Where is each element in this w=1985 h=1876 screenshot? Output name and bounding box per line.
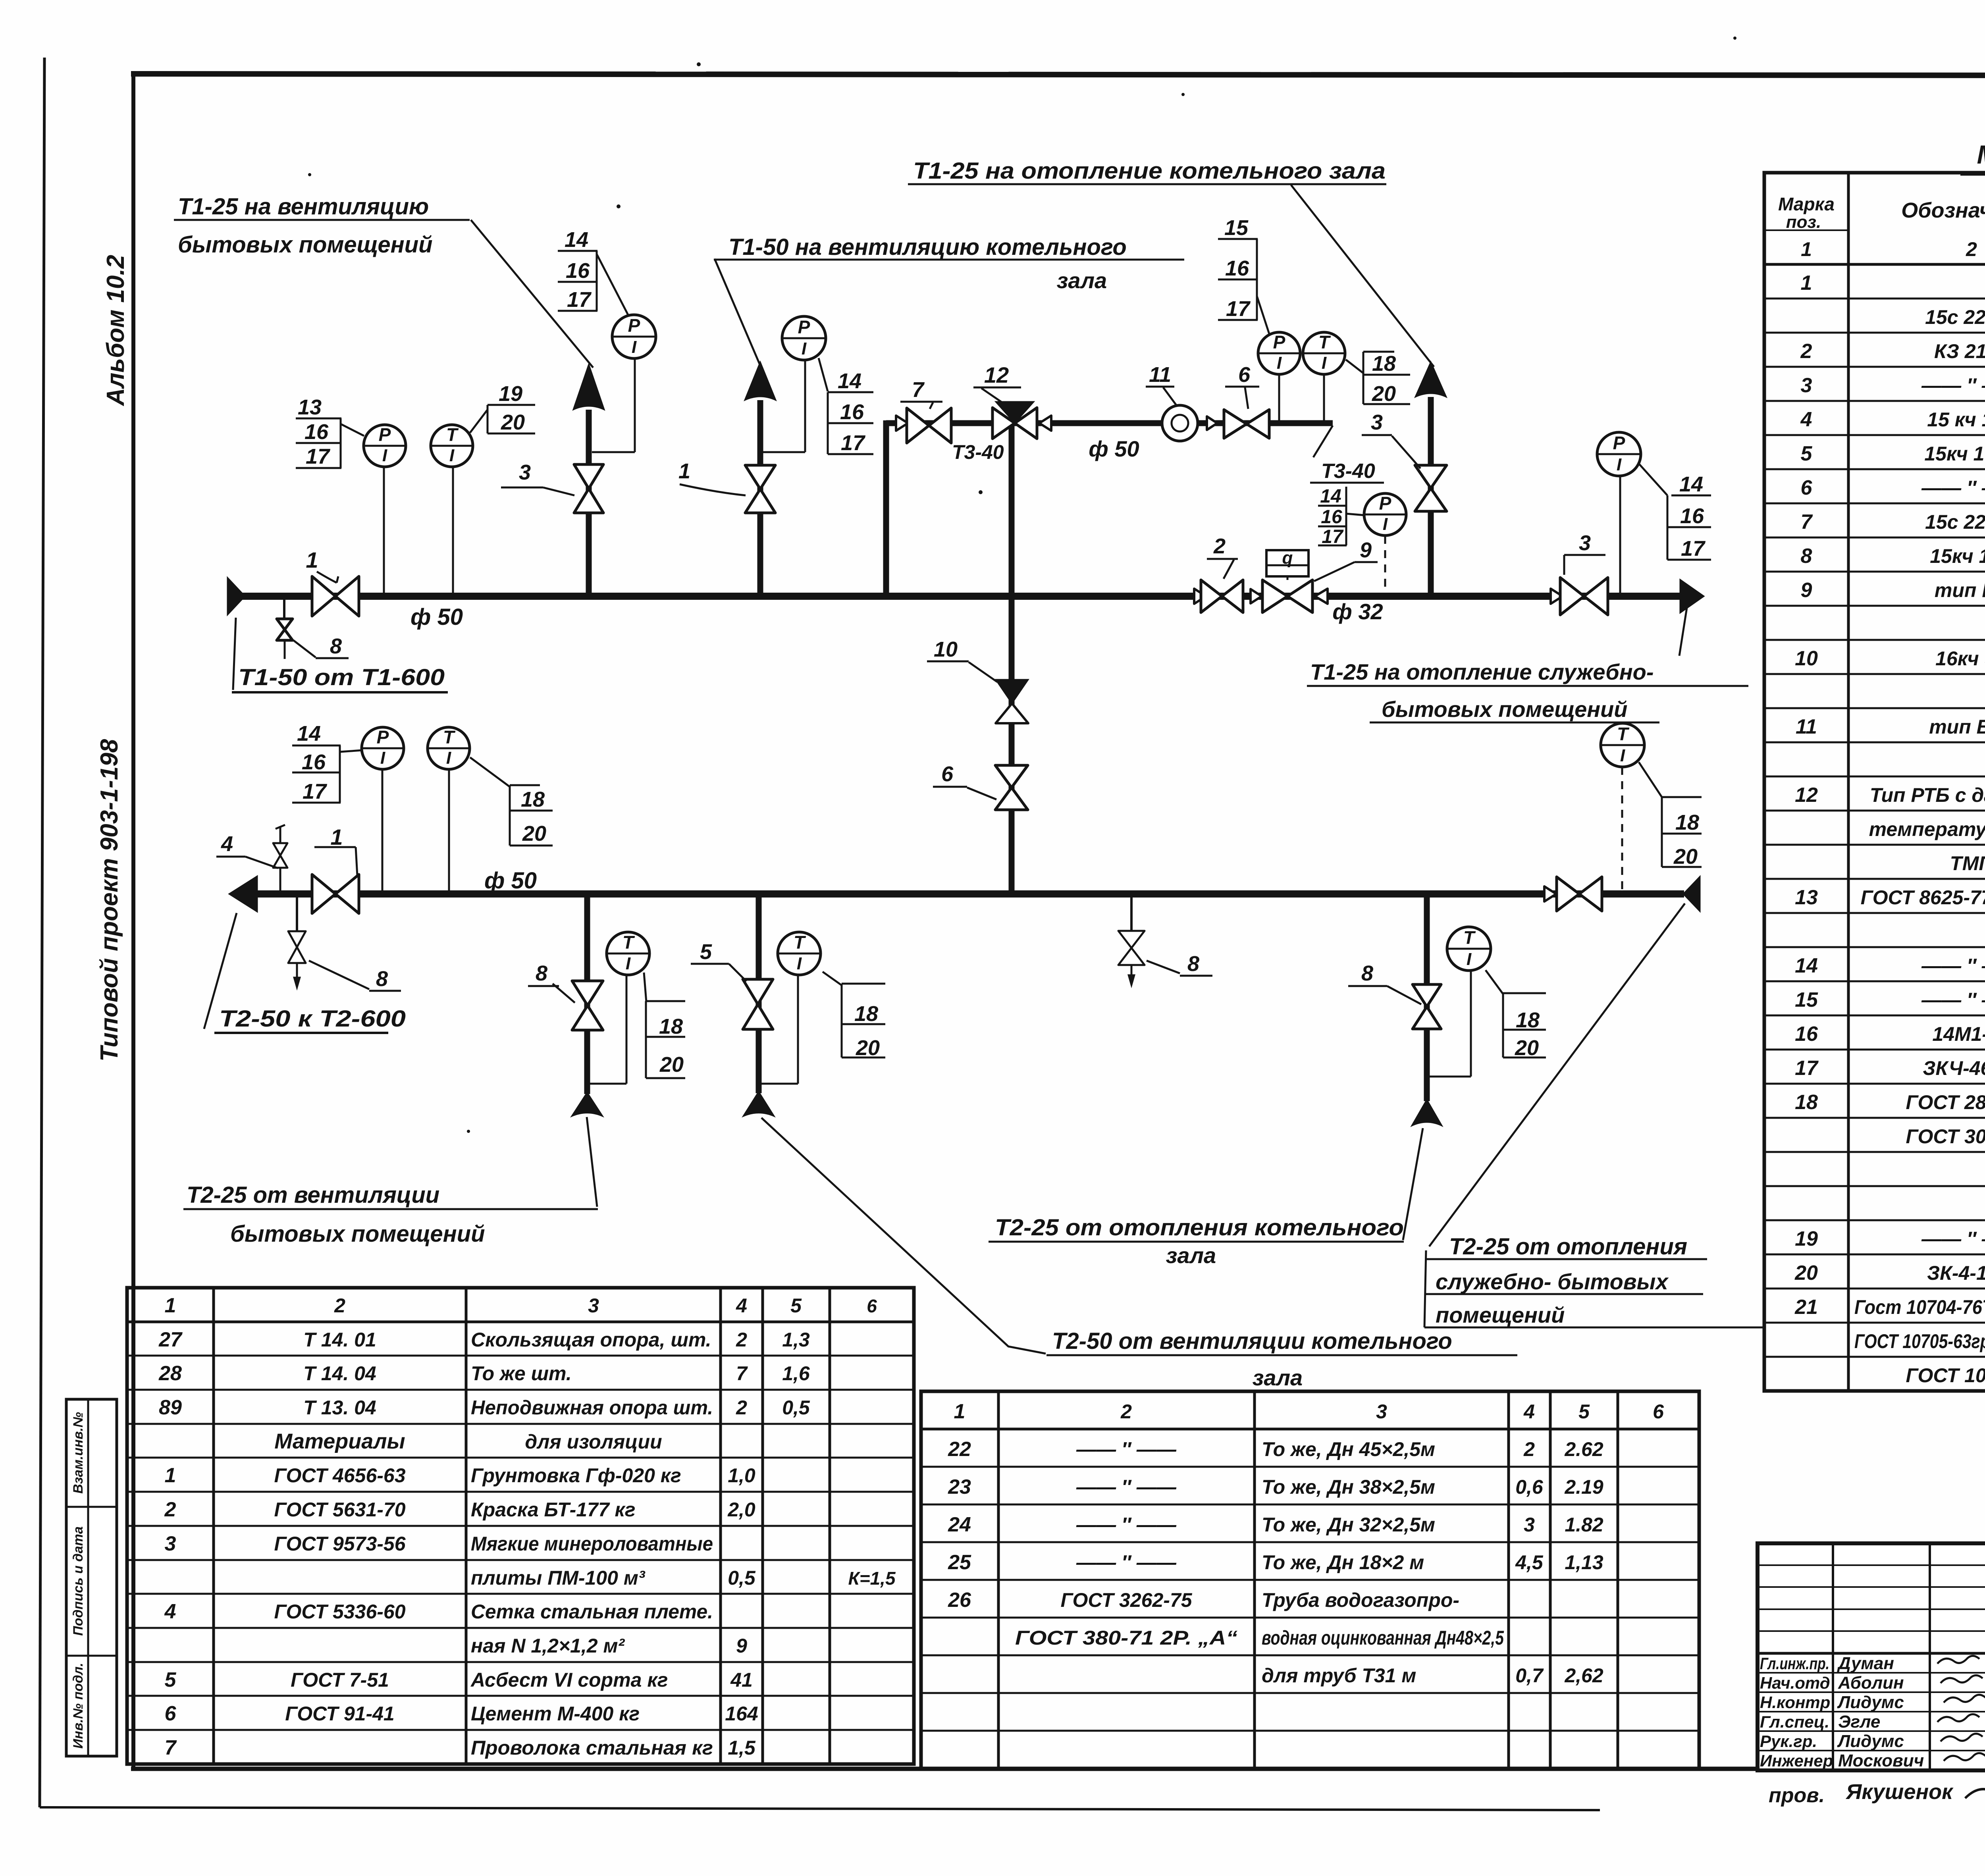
svg-text:19: 19	[1795, 1227, 1818, 1250]
svg-text:6: 6	[1238, 363, 1251, 387]
svg-text:Скользящая опора, шт.: Скользящая опора, шт.	[471, 1329, 711, 1351]
svg-text:—— ″ ——: —— ″ ——	[1076, 1476, 1177, 1498]
scan specks	[697, 62, 701, 66]
svg-text:1: 1	[678, 459, 690, 483]
svg-text:ГОСТ 8625-77тип МТП: ГОСТ 8625-77тип МТП	[1861, 886, 1985, 909]
svg-text:То же, Дн 45×2,5м: То же, Дн 45×2,5м	[1262, 1438, 1435, 1460]
svg-text:Альбом 10.2: Альбом 10.2	[102, 255, 129, 406]
valve 6 on T3 drop	[995, 765, 1028, 788]
svg-text:18: 18	[1795, 1091, 1818, 1114]
svg-text:Подпись и дата: Подпись и дата	[71, 1526, 86, 1636]
svg-text:КЗ 2191: КЗ 2191	[1934, 340, 1985, 362]
pipe T3 vertical drop to T2	[1009, 423, 1015, 894]
svg-text:17: 17	[567, 288, 592, 312]
svg-text:—— ″ ——: —— ″ ——	[1921, 374, 1985, 397]
svg-text:Р: Р	[1273, 332, 1285, 352]
svg-text:ГОСТ 5631-70: ГОСТ 5631-70	[274, 1498, 405, 1521]
svg-text:14: 14	[297, 722, 321, 745]
svg-text:5: 5	[700, 940, 712, 964]
svg-text:1: 1	[1801, 238, 1812, 260]
svg-text:3: 3	[1371, 410, 1383, 434]
wire: leader to label T1-50 ot T1-600	[233, 618, 236, 690]
flow arrow before valve 3 T2	[1544, 886, 1556, 901]
svg-text:17: 17	[1795, 1057, 1819, 1080]
bottom-left materials table	[127, 1288, 914, 1764]
inventory strip table	[66, 1399, 117, 1756]
valve 3 on T1 right	[1560, 578, 1584, 615]
svg-text:ГОСТ 5336-60: ГОСТ 5336-60	[274, 1601, 405, 1623]
svg-text:Гл.спец.: Гл.спец.	[1760, 1712, 1829, 1731]
svg-text:1,0: 1,0	[728, 1464, 755, 1487]
svg-text:Проволока стальная кг: Проволока стальная кг	[471, 1737, 713, 1759]
gauge P/I right of T1	[1597, 432, 1641, 476]
riser 3 (otoplenie kotelnogo zala)	[1428, 397, 1434, 596]
svg-text:14: 14	[838, 369, 861, 393]
svg-text:ГОСТ 9573-56: ГОСТ 9573-56	[274, 1533, 406, 1555]
svg-text:16: 16	[302, 750, 326, 774]
valve 1 on T2	[312, 874, 335, 913]
node: T1 outlet arrow	[1680, 580, 1704, 613]
valve 1 on riser 2	[745, 465, 775, 489]
pipe T3 bypass	[886, 420, 1333, 426]
svg-text:Т: Т	[1617, 724, 1630, 744]
svg-text:I: I	[626, 954, 631, 973]
node: T2 inlet arrow right	[1683, 876, 1700, 911]
svg-text:16кч 9п: 16кч 9п	[1935, 647, 1985, 670]
svg-text:Рук.гр.: Рук.гр.	[1760, 1732, 1817, 1751]
svg-text:2.62: 2.62	[1564, 1438, 1603, 1460]
svg-text:То же, Дн 38×2,5м: То же, Дн 38×2,5м	[1262, 1476, 1435, 1498]
wire: long leader to label sluzhebno-bytovyh	[1429, 903, 1685, 1246]
valve 8 on branch3	[1413, 984, 1441, 1007]
svg-text:Н.контр: Н.контр	[1760, 1693, 1830, 1712]
sheet bottom edge line	[40, 1807, 1600, 1810]
svg-text:17: 17	[303, 780, 328, 803]
svg-text:помещений: помещений	[1436, 1302, 1565, 1327]
wire: leader branch3 to label	[1403, 1128, 1423, 1240]
flow arrow	[896, 416, 908, 431]
svg-text:ГОСТ 3029-75: ГОСТ 3029-75	[1906, 1125, 1985, 1148]
svg-text:18: 18	[521, 788, 545, 811]
svg-text:3: 3	[519, 460, 531, 484]
wire: leader branch2 to label T2-50	[761, 1118, 1046, 1354]
gauge P/I pos 9 area	[1364, 493, 1406, 535]
svg-text:ГОСТ 380-71 2Р. „А“: ГОСТ 380-71 2Р. „А“	[1015, 1627, 1237, 1649]
svg-text:Т1-25 на отопление служебно: Т1-25 на отопление служебно-	[1310, 659, 1654, 684]
svg-text:Якушенок: Якушенок	[1845, 1780, 1954, 1804]
svg-text:Т3-40: Т3-40	[952, 441, 1004, 463]
svg-text:Р: Р	[798, 317, 810, 337]
svg-text:Взам.инв.№: Взам.инв.№	[71, 1412, 86, 1494]
valve 3 on riser 3	[1415, 465, 1447, 488]
node: branch1 from-below arrow	[572, 1092, 603, 1116]
svg-text:6: 6	[1653, 1400, 1664, 1423]
svg-text:I: I	[449, 446, 455, 465]
valve 2 on T1	[1201, 580, 1222, 612]
svg-text:I: I	[632, 337, 637, 357]
svg-text:К=1,5: К=1,5	[848, 1568, 896, 1589]
svg-text:—— ″ ——: —— ″ ——	[1076, 1438, 1177, 1460]
svg-text:То же, Дн 32×2,5м: То же, Дн 32×2,5м	[1262, 1514, 1435, 1536]
svg-text:1: 1	[1801, 272, 1812, 295]
svg-text:14М1-16: 14М1-16	[1932, 1023, 1985, 1045]
svg-text:Т2-25 от вентиляции: Т2-25 от вентиляции	[187, 1182, 439, 1208]
svg-text:15с 22 нж: 15с 22 нж	[1925, 511, 1985, 533]
svg-text:Р: Р	[1379, 493, 1391, 514]
svg-text:пров.: пров.	[1769, 1784, 1825, 1807]
svg-text:зала: зала	[1253, 1365, 1303, 1390]
svg-text:—— ″ ——: —— ″ ——	[1921, 989, 1985, 1011]
svg-text:I: I	[446, 748, 451, 768]
svg-text:Цемент М-400 кг: Цемент М-400 кг	[471, 1703, 640, 1725]
svg-text:14: 14	[1679, 472, 1703, 496]
svg-text:10: 10	[934, 638, 958, 661]
svg-text:I: I	[382, 446, 387, 465]
svg-text:Т: Т	[443, 727, 456, 747]
wire: leader branch1 to label	[587, 1117, 597, 1207]
svg-text:Т: Т	[622, 932, 635, 953]
gauge T/I branch1	[607, 932, 649, 975]
riser 1 (T1-25 vent byt)	[586, 410, 592, 596]
svg-text:10: 10	[1795, 647, 1818, 670]
svg-text:6: 6	[867, 1296, 877, 1316]
riser 2 (T1-50 vent kotel)	[757, 400, 763, 596]
svg-text:18: 18	[1516, 1008, 1540, 1032]
svg-text:9: 9	[736, 1635, 747, 1657]
svg-text:I: I	[802, 339, 807, 358]
svg-text:Эгле: Эгле	[1838, 1712, 1880, 1732]
svg-text:3: 3	[1801, 374, 1812, 397]
svg-text:20: 20	[1673, 845, 1698, 869]
svg-text:Аболин: Аболин	[1838, 1673, 1904, 1693]
svg-text:7: 7	[912, 378, 925, 402]
flow arrow	[1207, 416, 1217, 430]
branch 3 down (T2-25 otopl kotel zala)	[1424, 894, 1430, 1101]
svg-text:Лидумс: Лидумс	[1837, 1732, 1904, 1751]
svg-text:Лидумс: Лидумс	[1837, 1693, 1904, 1712]
svg-text:7: 7	[1801, 510, 1813, 534]
svg-text:1: 1	[165, 1294, 176, 1317]
svg-text:Т2-50 к Т2-600: Т2-50 к Т2-600	[219, 1006, 406, 1032]
svg-text:17: 17	[1322, 526, 1344, 547]
svg-text:28: 28	[158, 1362, 182, 1385]
svg-text:5: 5	[1801, 442, 1813, 465]
svg-text:20: 20	[856, 1036, 880, 1060]
svg-text:бытовых помещений: бытовых помещений	[1382, 697, 1627, 722]
svg-text:Т3-40: Т3-40	[1321, 460, 1375, 483]
svg-text:2: 2	[1213, 534, 1226, 558]
svg-text:164: 164	[725, 1703, 758, 1725]
valve 1 on T1	[312, 576, 335, 616]
svg-text:поз.: поз.	[1786, 212, 1821, 232]
svg-text:ГОСТ 7-51: ГОСТ 7-51	[291, 1669, 389, 1691]
svg-text:20: 20	[1372, 382, 1396, 406]
svg-text:ф 50: ф 50	[410, 604, 463, 630]
svg-text:служебно- бытовых: служебно- бытовых	[1436, 1269, 1669, 1294]
svg-text:Т1-25 на вентиляцию: Т1-25 на вентиляцию	[178, 194, 429, 220]
drain valve 8 below T2	[296, 897, 298, 930]
svg-text:Т: Т	[794, 932, 806, 953]
svg-text:12: 12	[984, 362, 1009, 387]
svg-text:Краска БТ-177 кг: Краска БТ-177 кг	[471, 1498, 636, 1521]
svg-text:3: 3	[1524, 1514, 1535, 1536]
svg-text:Неподвижная опора шт.: Неподвижная опора шт.	[471, 1396, 713, 1419]
svg-text:4: 4	[1523, 1400, 1535, 1423]
branch 1 down (T2-25 vent byt)	[584, 894, 590, 1094]
label stack 18/20 right T2	[1662, 796, 1702, 798]
svg-text:Т1-50 от Т1-600: Т1-50 от Т1-600	[238, 664, 445, 690]
svg-text:Грунтовка Гф-020 кг: Грунтовка Гф-020 кг	[471, 1464, 681, 1487]
svg-text:Нач.отд: Нач.отд	[1760, 1674, 1830, 1692]
svg-text:Труба водогазопро-: Труба водогазопро-	[1262, 1589, 1459, 1611]
svg-text:1,3: 1,3	[782, 1329, 810, 1351]
svg-text:16: 16	[566, 259, 590, 283]
gauge T/I	[431, 425, 473, 467]
drain valve 8 below T2 middle	[1130, 897, 1133, 930]
svg-text:1: 1	[165, 1464, 176, 1487]
svg-text:бытовых помещений: бытовых помещений	[230, 1221, 485, 1247]
svg-text:13: 13	[298, 395, 322, 419]
svg-text:3: 3	[1376, 1400, 1387, 1423]
svg-text:водная оцинкованная Дн48×2,5: водная оцинкованная Дн48×2,5	[1262, 1627, 1504, 1649]
svg-text:5: 5	[165, 1668, 177, 1691]
svg-text:3: 3	[588, 1294, 599, 1317]
svg-text:I: I	[1322, 353, 1327, 373]
valve 3 on T2 right	[1557, 877, 1579, 911]
gauge T/I T2	[428, 727, 470, 769]
svg-text:I: I	[380, 748, 385, 768]
svg-text:для изоляции: для изоляции	[525, 1431, 662, 1453]
svg-text:23: 23	[948, 1475, 971, 1498]
svg-text:Гост 10704-76ТУ на пост.: Гост 10704-76ТУ на пост.	[1854, 1296, 1985, 1318]
three-way valve 12	[996, 402, 1034, 423]
svg-text:18: 18	[1675, 811, 1699, 834]
gauge T/I right T2	[1601, 723, 1644, 767]
svg-text:зала: зала	[1057, 268, 1107, 293]
branch 2 down (T2-25 otopl kotel)	[756, 894, 762, 1093]
svg-text:—— ″ ——: —— ″ ——	[1921, 1228, 1985, 1250]
spec table grid	[1764, 173, 1985, 1391]
svg-text:1: 1	[330, 824, 343, 849]
flow arrow after 3way	[1039, 416, 1051, 431]
svg-text:ГОСТ 91-41: ГОСТ 91-41	[285, 1703, 394, 1725]
svg-text:3: 3	[165, 1532, 176, 1555]
svg-text:1,5: 1,5	[728, 1737, 756, 1759]
svg-text:8: 8	[1187, 952, 1199, 976]
svg-text:27: 27	[158, 1328, 183, 1351]
svg-text:8: 8	[376, 967, 388, 991]
title block	[1758, 1543, 1985, 1770]
wire: leader to riser3 arrow	[1291, 185, 1434, 367]
svg-text:15кч 16п1: 15кч 16п1	[1924, 443, 1985, 465]
svg-text:22: 22	[948, 1438, 971, 1461]
svg-text:Р: Р	[379, 424, 391, 445]
svg-text:I: I	[1617, 455, 1622, 474]
svg-text:для труб Т31 м: для труб Т31 м	[1262, 1664, 1416, 1687]
regulator valve 9 with actuator	[1262, 580, 1287, 612]
svg-text:Материалы: Материалы	[274, 1429, 405, 1453]
svg-text:14: 14	[1795, 954, 1818, 977]
svg-text:24: 24	[948, 1513, 971, 1536]
svg-text:ГОСТ 1050-60: ГОСТ 1050-60	[1906, 1364, 1985, 1387]
valve 5 on branch2	[743, 979, 773, 1004]
svg-text:6: 6	[941, 762, 954, 786]
pipe T2 lower main	[243, 890, 1684, 898]
svg-text:Марка: Марка	[1778, 194, 1835, 214]
drain valve 8 on T1	[283, 599, 285, 618]
svg-text:—— ″ ——: —— ″ ——	[1921, 477, 1985, 499]
svg-text:5: 5	[1578, 1400, 1590, 1423]
svg-text:14: 14	[565, 228, 588, 252]
svg-text:—— ″ ——: —— ″ ——	[1921, 955, 1985, 977]
svg-text:ЗКЧ-46-70: ЗКЧ-46-70	[1923, 1057, 1985, 1079]
svg-text:0,5: 0,5	[728, 1567, 756, 1589]
svg-text:Т2-25 от отопления: Т2-25 от отопления	[1449, 1234, 1687, 1260]
gauge P/I (pos.13)	[364, 425, 406, 467]
bottom-middle pipes table	[921, 1391, 1699, 1768]
svg-text:Т: Т	[446, 424, 459, 445]
svg-text:17: 17	[1681, 537, 1706, 560]
svg-text:5: 5	[790, 1294, 802, 1317]
svg-text:тип ВТГ: тип ВТГ	[1929, 716, 1985, 738]
svg-text:12: 12	[1795, 784, 1818, 807]
svg-text:2: 2	[736, 1396, 747, 1419]
svg-text:20: 20	[1515, 1036, 1539, 1060]
svg-text:Р: Р	[628, 315, 640, 336]
flow arrow before valve 2	[1194, 589, 1206, 604]
svg-text:Т: Т	[1318, 332, 1331, 352]
svg-text:То же шт.: То же шт.	[471, 1362, 572, 1385]
gauge P/I T2	[362, 727, 404, 769]
svg-text:Р: Р	[377, 727, 389, 747]
node: T2 outlet arrow left	[229, 876, 257, 912]
svg-text:19: 19	[499, 382, 522, 406]
svg-text:11: 11	[1796, 715, 1817, 738]
svg-text:тип РР: тип РР	[1935, 579, 1985, 601]
svg-text:Т: Т	[1463, 927, 1476, 948]
svg-text:2,62: 2,62	[1564, 1664, 1603, 1687]
svg-text:ГОСТ 3262-75: ГОСТ 3262-75	[1060, 1589, 1192, 1611]
svg-text:20: 20	[522, 822, 546, 846]
svg-text:Сетка стальная плете.: Сетка стальная плете.	[471, 1601, 713, 1623]
flow arrow after valve 9	[1315, 589, 1328, 604]
svg-text:8: 8	[1361, 961, 1373, 985]
svg-text:0,7: 0,7	[1515, 1664, 1544, 1687]
svg-text:89: 89	[159, 1396, 182, 1419]
svg-text:Инв.№ подл.: Инв.№ подл.	[71, 1663, 86, 1749]
node: T1 inlet arrow	[227, 578, 245, 615]
label stack 18/20 branch3	[1503, 992, 1546, 994]
svg-text:4: 4	[164, 1600, 176, 1623]
svg-text:4: 4	[1800, 408, 1812, 431]
label T3-40 with leader	[1313, 426, 1333, 457]
sheet left edge line	[40, 58, 44, 1807]
svg-text:ф 32: ф 32	[1332, 599, 1383, 624]
valve 8 on branch1	[572, 981, 603, 1005]
svg-text:16: 16	[840, 400, 864, 424]
svg-text:0,6: 0,6	[1515, 1476, 1544, 1498]
svg-text:8: 8	[1801, 545, 1812, 568]
svg-text:25: 25	[948, 1551, 971, 1574]
svg-text:1,13: 1,13	[1565, 1551, 1603, 1574]
label stack 18/20 bypass	[1363, 351, 1394, 353]
svg-text:ГОСТ 2823-73: ГОСТ 2823-73	[1906, 1091, 1985, 1113]
svg-text:6: 6	[1801, 476, 1813, 499]
svg-text:18: 18	[854, 1002, 878, 1026]
label stack 18/20 branch2	[842, 983, 885, 985]
air valve 4 on T2	[279, 868, 281, 891]
svg-text:бытовых помещений: бытовых помещений	[178, 232, 433, 258]
svg-text:7: 7	[736, 1362, 748, 1385]
svg-text:2: 2	[1800, 340, 1812, 363]
svg-text:15кч 19п: 15кч 19п	[1930, 545, 1985, 567]
svg-text:Типовой проект 903-1-198: Типовой проект 903-1-198	[96, 739, 123, 1061]
svg-text:Т 14. 01: Т 14. 01	[303, 1329, 376, 1351]
valve 3 on riser 1	[574, 464, 603, 489]
svg-text:ная N 1,2×1,2 м²: ная N 1,2×1,2 м²	[471, 1635, 625, 1657]
svg-text:2.19: 2.19	[1564, 1476, 1603, 1498]
svg-text:ф 50: ф 50	[1089, 436, 1139, 461]
svg-text:20: 20	[659, 1053, 684, 1077]
svg-text:17: 17	[841, 431, 866, 455]
svg-text:Обозначение: Обозначение	[1901, 198, 1985, 222]
svg-text:15: 15	[1224, 216, 1249, 240]
svg-text:I: I	[1383, 514, 1388, 534]
svg-text:I: I	[1467, 950, 1472, 969]
wire: leader to label T2-50 k T2-600	[204, 913, 237, 1029]
svg-text:16: 16	[1680, 504, 1704, 528]
svg-text:4: 4	[736, 1294, 747, 1317]
svg-text:3: 3	[1579, 531, 1591, 555]
dashed tap to T/I right	[1621, 767, 1623, 891]
svg-text:9: 9	[1801, 579, 1812, 602]
svg-text:16: 16	[1321, 507, 1342, 528]
svg-text:0,5: 0,5	[782, 1396, 810, 1419]
svg-text:—— ″ ——: —— ″ ——	[1076, 1514, 1177, 1536]
svg-text:q: q	[1282, 548, 1293, 568]
svg-text:4,5: 4,5	[1515, 1551, 1544, 1574]
gauges P/I T/I on bypass end	[1278, 375, 1280, 421]
svg-text:температуры типа: температуры типа	[1869, 818, 1985, 840]
node: branch2 from-below arrow	[743, 1092, 774, 1116]
svg-text:Т1-25 на отопление котельно: Т1-25 на отопление котельного зала	[913, 158, 1386, 184]
gauge T/I branch3	[1447, 927, 1491, 971]
svg-text:15 кч 18п: 15 кч 18п	[1927, 408, 1985, 431]
svg-text:I: I	[1277, 353, 1282, 373]
dashed tap	[1384, 536, 1386, 593]
drawing frame	[131, 74, 1985, 76]
svg-text:26: 26	[948, 1589, 971, 1612]
svg-text:1,6: 1,6	[782, 1362, 810, 1385]
svg-text:—— ″ ——: —— ″ ——	[1076, 1551, 1177, 1574]
svg-text:13: 13	[1795, 886, 1818, 909]
svg-text:18: 18	[1372, 352, 1396, 376]
svg-text:ГОСТ 10705-63гр„В“ст.10 по: ГОСТ 10705-63гр„В“ст.10 по	[1854, 1330, 1985, 1352]
flow arrow before valve 3 right	[1551, 589, 1563, 604]
valve 7 on bypass	[907, 408, 929, 443]
gauge T/I branch2	[778, 932, 821, 975]
wire: leader to riser1 arrow	[471, 220, 593, 368]
svg-text:I: I	[797, 954, 802, 973]
svg-text:16: 16	[1225, 256, 1249, 280]
svg-text:Думан: Думан	[1837, 1654, 1894, 1673]
svg-text:4: 4	[221, 832, 233, 856]
svg-text:То же, Дн 18×2 м: То же, Дн 18×2 м	[1262, 1551, 1424, 1574]
instrument taps on T2 left	[382, 769, 384, 891]
svg-text:ТМП: ТМП	[1950, 852, 1985, 874]
svg-text:Т2-50 от вентиляции котельно: Т2-50 от вентиляции котельного	[1052, 1328, 1452, 1354]
svg-text:17: 17	[1226, 297, 1251, 321]
